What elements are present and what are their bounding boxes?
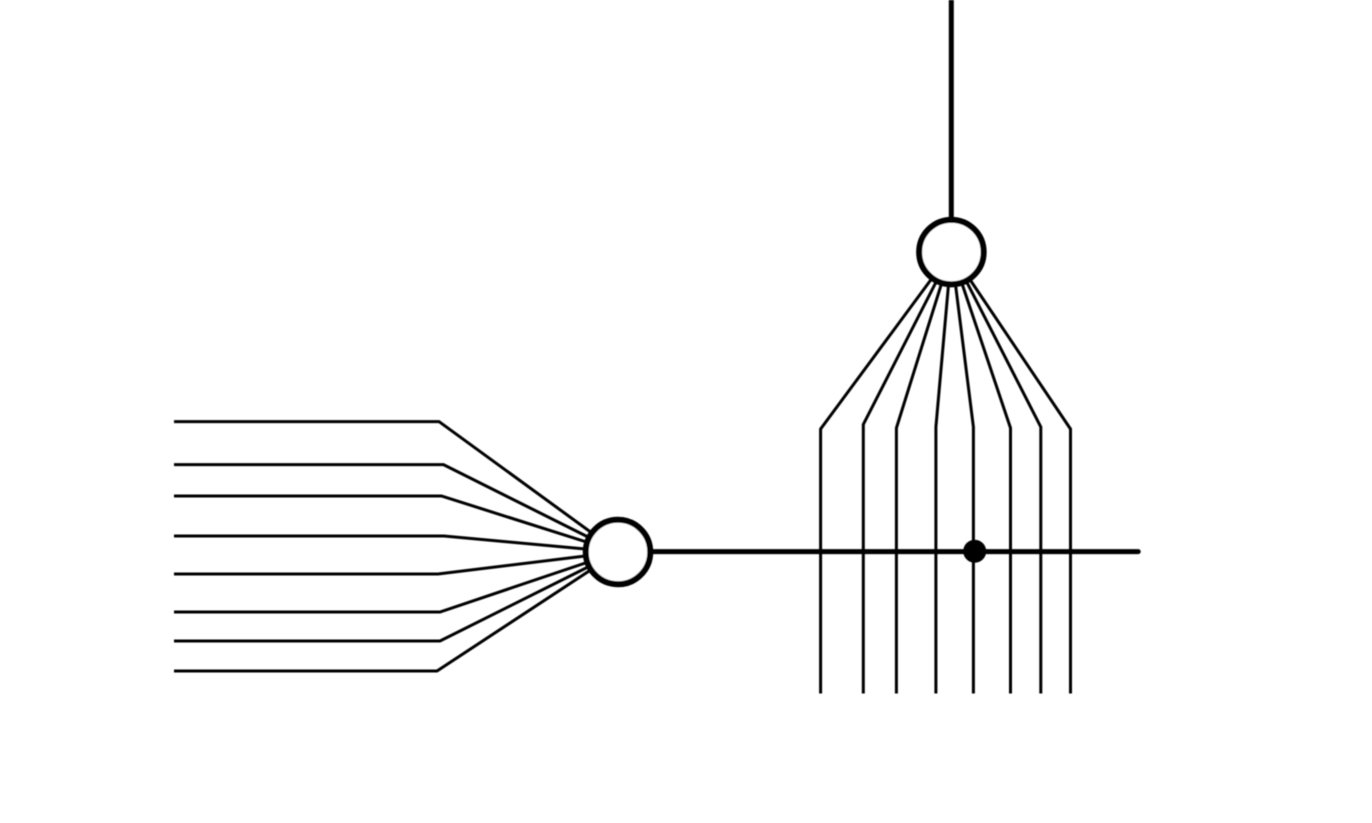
wire: right fan line 8 xyxy=(951,252,1070,694)
wire: right fan line 2 xyxy=(863,252,951,694)
junction dot xyxy=(963,540,986,563)
wire: right fan line 5 xyxy=(951,252,973,694)
wire: right fan line 3 xyxy=(896,252,951,694)
wire: left dendrite 1 xyxy=(174,422,618,552)
wire: top vertical lead xyxy=(949,0,954,252)
wire: right fan line 6 xyxy=(951,252,1010,694)
wire: main horizontal axon xyxy=(618,549,1138,554)
wire: left dendrite 4 xyxy=(174,536,618,552)
wire: left dendrite 7 xyxy=(174,552,618,641)
wire: right fan line 7 xyxy=(951,252,1040,694)
wire: left dendrite 3 xyxy=(174,496,618,552)
wire: left dendrite 5 xyxy=(174,552,618,574)
node: left cell body xyxy=(586,520,651,585)
wire: right fan line 1 xyxy=(821,252,952,694)
node: top cell body xyxy=(919,220,984,285)
wire: left dendrite 6 xyxy=(174,552,618,612)
wire: left dendrite 2 xyxy=(174,465,618,552)
wire: right fan line 4 xyxy=(936,252,952,694)
wire: left dendrite 8 xyxy=(174,552,618,671)
